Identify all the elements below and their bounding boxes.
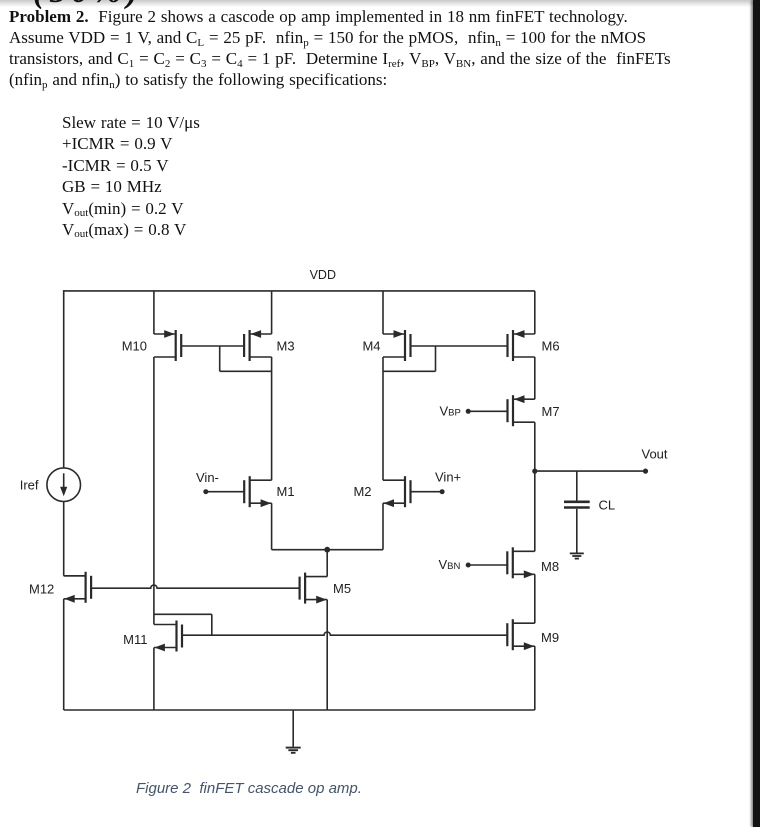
wire M8 source to M9 drain <box>534 574 536 623</box>
node Vin+ terminal and wire to M2 gate <box>440 489 445 494</box>
wire M4 drain down to M2 drain <box>382 357 384 480</box>
svg-text:VDD: VDD <box>310 268 336 282</box>
wire M7 drain to output node <box>534 422 536 471</box>
node Vout terminal <box>643 469 648 474</box>
svg-text:M1: M1 <box>277 484 295 499</box>
wire M10 source to VDD rail <box>153 291 155 334</box>
wire gate M4 to gate M6 <box>411 345 508 347</box>
node VBN terminal and wire to M8 gate <box>466 563 471 568</box>
transistor M11 (nMOS, diode connected) <box>175 621 177 652</box>
wire M11 source to ground rail <box>153 648 155 710</box>
svg-text:M7: M7 <box>542 404 560 419</box>
transistor M10 (pMOS) <box>175 330 177 361</box>
transistor M6 (pMOS) <box>512 330 514 361</box>
wire VDD top rail <box>64 290 535 292</box>
wire M4 gate-drain tie <box>435 346 437 371</box>
svg-text:M9: M9 <box>541 630 559 645</box>
wire M3 drain down to M1 drain <box>271 357 273 480</box>
svg-text:M6: M6 <box>542 339 560 354</box>
capacitor CL <box>576 471 578 501</box>
wire gate line M12 to M5 (hops over bias1) <box>91 585 300 588</box>
svg-text:M11: M11 <box>123 632 147 647</box>
wire M5 source to ground rail <box>326 600 328 710</box>
wire M6 drain to M7 source <box>534 357 536 399</box>
wire M6 source to VDD rail <box>534 291 536 334</box>
transistor M5 (nMOS tail) <box>304 573 306 604</box>
wire left column from VDD rail to Iref <box>63 290 65 468</box>
ground symbol at CL <box>570 552 584 554</box>
svg-text:M5: M5 <box>333 581 351 596</box>
wire M12 source to ground rail <box>63 599 65 710</box>
svg-text:VBP: VBP <box>440 404 461 419</box>
svg-text:M12: M12 <box>29 582 54 597</box>
wire tail to M5 drain <box>326 550 328 577</box>
wire M3 source to VDD rail <box>271 291 273 334</box>
transistor M7 (pMOS cascode) <box>512 395 514 426</box>
svg-text:Iref: Iref <box>20 478 39 493</box>
wire M10 drain down to M11 drain (node bias1) <box>153 357 155 624</box>
wire gate M10 to gate M3 <box>181 345 244 347</box>
node output junction <box>532 469 537 474</box>
wire ground bottom rail <box>64 709 535 711</box>
svg-text:M10: M10 <box>122 339 147 354</box>
svg-text:Vin+: Vin+ <box>435 470 461 485</box>
wire M9 source to ground rail <box>534 646 536 710</box>
current source Iref <box>47 468 81 502</box>
transistor M12 (nMOS) <box>84 572 86 603</box>
wire M4 source to VDD rail <box>382 291 384 334</box>
wire tail node horizontal <box>272 549 383 551</box>
transistor M2 (nMOS input) <box>404 476 406 507</box>
wire Iref to M12 drain <box>63 502 65 576</box>
node Vin- terminal and wire to M1 gate <box>203 489 208 494</box>
wire gate line M11 to M9 (hops over M5 source) <box>182 632 507 635</box>
ground symbol main <box>286 747 301 749</box>
svg-text:Vout: Vout <box>642 447 668 462</box>
svg-text:Vin-: Vin- <box>196 470 219 485</box>
wire M3 gate-drain tie <box>219 346 221 371</box>
transistor M9 (nMOS) <box>512 619 514 650</box>
transistor M1 (nMOS input) <box>249 476 251 507</box>
svg-text:VBN: VBN <box>439 557 461 572</box>
node tail junction <box>324 547 330 553</box>
wire M2 source to tail node <box>382 503 384 550</box>
svg-text:M8: M8 <box>541 559 559 574</box>
svg-text:CL: CL <box>599 498 616 513</box>
svg-text:M2: M2 <box>353 484 371 499</box>
svg-text:M4: M4 <box>362 339 380 354</box>
transistor M3 (pMOS, diode connected) <box>249 330 251 361</box>
wire M1 source to tail node <box>271 503 273 550</box>
wire output node down to M8 drain <box>534 471 536 551</box>
transistor M8 (nMOS cascode) <box>512 547 514 578</box>
svg-text:M3: M3 <box>277 339 295 354</box>
wire branch to M11/M9 gate node <box>154 613 212 615</box>
node VBP terminal and wire to M7 gate <box>466 409 471 414</box>
wire ground stub <box>292 710 294 747</box>
wire output to Vout terminal <box>535 470 646 472</box>
transistor M4 (pMOS, diode connected) <box>404 330 406 361</box>
